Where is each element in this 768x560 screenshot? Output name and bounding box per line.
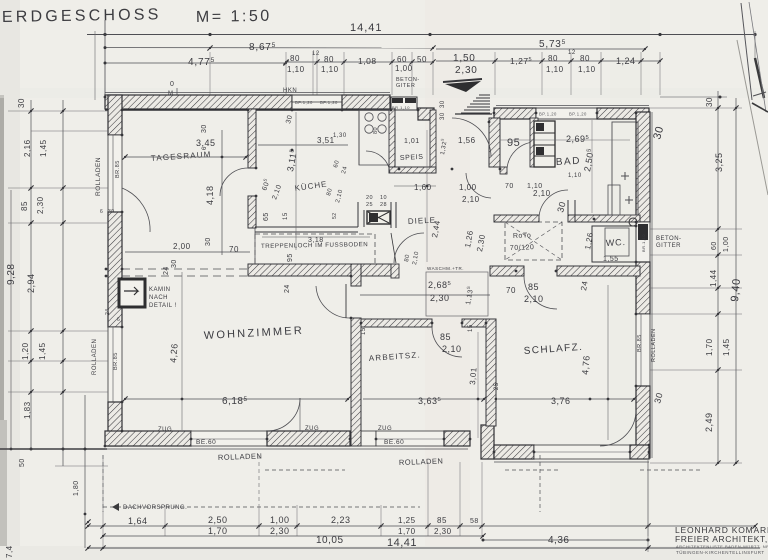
exterior left wall mid bbox=[108, 212, 122, 327]
bad tiled wardrobe right bbox=[612, 122, 638, 215]
door speis-diele arc bbox=[466, 173, 491, 198]
tagesraum dims bbox=[125, 156, 246, 158]
svg-text:70: 70 bbox=[505, 183, 514, 190]
exterior right wall lower bbox=[636, 386, 650, 458]
top dim 8,67.5 bbox=[105, 47, 433, 49]
dim 4,36 line bbox=[483, 539, 648, 541]
svg-text:1,60: 1,60 bbox=[414, 183, 432, 192]
svg-text:1,50: 1,50 bbox=[453, 53, 476, 64]
svg-text:BR.85: BR.85 bbox=[115, 160, 121, 178]
door diele-schlafz arc bbox=[524, 276, 557, 309]
svg-text:BE.60: BE.60 bbox=[384, 439, 404, 446]
entrance right wall bbox=[489, 118, 500, 167]
svg-text:BP.1,20: BP.1,20 bbox=[295, 100, 313, 105]
svg-text:7,4: 7,4 bbox=[5, 545, 14, 558]
top wall window BP1,20 kitchen bbox=[292, 95, 342, 109]
extension lines top bbox=[209, 52, 211, 95]
kueche dims bbox=[258, 144, 348, 146]
svg-text:30: 30 bbox=[171, 259, 178, 268]
svg-text:BP.1,20: BP.1,20 bbox=[320, 100, 338, 105]
speis/diele wall bbox=[389, 167, 436, 173]
svg-text:FREIER ARCHITEKT, ING.: FREIER ARCHITEKT, ING. bbox=[675, 534, 768, 544]
svg-text:25: 25 bbox=[366, 202, 373, 208]
exterior right wall upper bbox=[636, 112, 650, 222]
svg-text:1,10: 1,10 bbox=[321, 65, 339, 74]
svg-text:ERDGESCHOSS: ERDGESCHOSS bbox=[2, 6, 162, 26]
bad interior wall vertical bbox=[530, 118, 538, 167]
svg-text:2,10: 2,10 bbox=[533, 189, 551, 198]
svg-text:2,10: 2,10 bbox=[462, 195, 480, 204]
top dim 1,50 2,30 entrance bbox=[436, 60, 495, 62]
svg-text:2,30: 2,30 bbox=[455, 65, 478, 76]
bottom window 1 BE.60 bbox=[191, 431, 267, 446]
svg-text:ROLLADEN: ROLLADEN bbox=[95, 157, 102, 196]
svg-text:6: 6 bbox=[202, 146, 208, 150]
entrance steps symbol bbox=[479, 94, 490, 96]
door tagesraum arc bbox=[220, 168, 248, 196]
bad block bottom wall right bbox=[568, 215, 640, 222]
svg-text:10,05: 10,05 bbox=[316, 535, 344, 546]
svg-text:1,10: 1,10 bbox=[578, 65, 596, 74]
svg-text:1,55: 1,55 bbox=[603, 256, 619, 263]
exterior left wall bottom bbox=[108, 402, 122, 446]
svg-text:14,41: 14,41 bbox=[387, 537, 417, 549]
construction line diele bbox=[426, 130, 428, 262]
schlafz top wall bbox=[490, 266, 524, 276]
svg-text:2,30: 2,30 bbox=[430, 293, 450, 303]
svg-text:ZUG: ZUG bbox=[158, 427, 172, 433]
svg-text:2,94: 2,94 bbox=[26, 273, 36, 293]
left col vlines bbox=[30, 100, 32, 449]
svg-text:M= 1:50: M= 1:50 bbox=[196, 8, 272, 26]
svg-text:WASCHM.+TR.: WASCHM.+TR. bbox=[427, 266, 464, 271]
svg-text:ROLLADEN: ROLLADEN bbox=[399, 456, 444, 467]
door corridor arc bbox=[539, 190, 568, 218]
exterior top wall right section bbox=[494, 108, 536, 119]
svg-text:1,25: 1,25 bbox=[398, 516, 416, 525]
svg-text:95: 95 bbox=[287, 253, 294, 262]
svg-text:2,10: 2,10 bbox=[442, 344, 462, 354]
top dim line 14,41 bbox=[87, 34, 755, 36]
svg-text:85: 85 bbox=[437, 516, 447, 525]
svg-text:4,36: 4,36 bbox=[548, 535, 569, 546]
svg-text:1,30: 1,30 bbox=[333, 133, 347, 139]
right wall window small dark boxes bbox=[636, 222, 650, 262]
svg-text:1,20: 1,20 bbox=[21, 342, 30, 360]
stair opening dashed rect bbox=[255, 233, 375, 235]
circle mark near wc bbox=[629, 218, 637, 226]
kitchen counter top bbox=[359, 110, 389, 165]
arbeitsz top wall left bbox=[361, 319, 432, 327]
svg-text:6: 6 bbox=[117, 317, 120, 323]
left wall window ROLLADEN upper bbox=[108, 135, 122, 212]
svg-text:2,50: 2,50 bbox=[208, 515, 228, 525]
top small dims row bbox=[286, 61, 433, 63]
svg-text:ZUG: ZUG bbox=[305, 426, 319, 432]
top dims right small bbox=[495, 60, 660, 62]
outer face second lines bbox=[105, 448, 468, 450]
stair dims bbox=[262, 236, 370, 238]
speis left wall bbox=[389, 109, 395, 173]
svg-text:1,00: 1,00 bbox=[270, 515, 290, 525]
svg-text:80: 80 bbox=[373, 127, 379, 134]
svg-text:DACHVORSPRUNG.: DACHVORSPRUNG. bbox=[123, 505, 187, 511]
svg-text:30: 30 bbox=[201, 124, 208, 133]
svg-text:1,45: 1,45 bbox=[38, 342, 47, 360]
svg-text:ZUG: ZUG bbox=[378, 426, 392, 432]
svg-text:1,45: 1,45 bbox=[722, 338, 731, 356]
door diele-wohnzimmer arc bbox=[316, 286, 351, 318]
svg-text:BAD: BAD bbox=[556, 156, 582, 168]
svg-text:80: 80 bbox=[324, 55, 334, 64]
step wall vertical bbox=[481, 425, 494, 459]
svg-text:2,10: 2,10 bbox=[524, 294, 544, 304]
svg-text:1,00: 1,00 bbox=[459, 183, 477, 192]
svg-text:BR.1,10: BR.1,10 bbox=[641, 234, 646, 252]
svg-text:1,70: 1,70 bbox=[705, 338, 714, 356]
roto dashed skylight bbox=[505, 222, 562, 260]
svg-text:SPEIS: SPEIS bbox=[400, 154, 424, 162]
svg-text:1,64: 1,64 bbox=[128, 516, 148, 526]
svg-text:65: 65 bbox=[263, 212, 270, 221]
svg-text:BETON-: BETON- bbox=[656, 236, 682, 242]
right col vlines bbox=[717, 91, 719, 463]
wc walls bbox=[592, 226, 636, 262]
svg-text:1,44: 1,44 bbox=[709, 269, 718, 287]
exterior bottom wall left bbox=[105, 431, 191, 446]
svg-text:58: 58 bbox=[470, 518, 479, 525]
svg-text:3,76: 3,76 bbox=[551, 396, 571, 406]
svg-text:70: 70 bbox=[506, 286, 516, 295]
svg-text:2,49: 2,49 bbox=[704, 412, 714, 432]
wc left wall bbox=[567, 200, 569, 222]
svg-text:1,56: 1,56 bbox=[458, 136, 476, 145]
svg-text:28: 28 bbox=[380, 202, 387, 208]
svg-text:1,70: 1,70 bbox=[398, 527, 416, 536]
svg-text:2,23: 2,23 bbox=[331, 515, 351, 525]
main extension vline left bbox=[104, 20, 106, 97]
stove niche walls bbox=[357, 202, 359, 227]
bad washstand dark bbox=[534, 121, 555, 167]
svg-text:BE.60: BE.60 bbox=[196, 439, 216, 446]
svg-text:50: 50 bbox=[417, 55, 427, 64]
svg-text:1,10: 1,10 bbox=[568, 173, 582, 179]
north arrow bbox=[445, 81, 481, 92]
svg-text:15: 15 bbox=[283, 212, 289, 220]
junction dots bbox=[104, 96, 107, 99]
right wall window ROLLADEN bbox=[636, 314, 650, 386]
row 2,00 30 70 bbox=[125, 251, 250, 253]
kamin chimney bbox=[119, 279, 145, 307]
hotplates bbox=[365, 113, 373, 121]
top wall window boxes left of entrance bbox=[391, 97, 417, 110]
bottom dim row1 bbox=[88, 525, 755, 527]
svg-text:1,10: 1,10 bbox=[287, 65, 305, 74]
svg-text:85: 85 bbox=[20, 201, 29, 211]
wall wohnzimmer/arbeitsz vertical bbox=[351, 318, 361, 446]
svg-text:4,26: 4,26 bbox=[168, 343, 180, 363]
svg-text:1,10: 1,10 bbox=[546, 65, 564, 74]
svg-text:80: 80 bbox=[548, 54, 558, 63]
svg-text:4,18: 4,18 bbox=[205, 185, 215, 205]
svg-text:2,16: 2,16 bbox=[23, 139, 32, 157]
svg-text:2,30: 2,30 bbox=[36, 196, 45, 214]
svg-text:BR.85: BR.85 bbox=[113, 352, 119, 370]
svg-text:80: 80 bbox=[580, 54, 590, 63]
svg-text:TÜBINGEN-KIRCHENTELLINSFURT: TÜBINGEN-KIRCHENTELLINSFURT bbox=[676, 549, 765, 555]
svg-text:1,24: 1,24 bbox=[616, 56, 636, 66]
svg-text:60: 60 bbox=[397, 55, 407, 64]
svg-text:15: 15 bbox=[361, 327, 367, 335]
svg-text:1,80: 1,80 bbox=[73, 480, 80, 496]
speis right wall bbox=[430, 110, 436, 172]
faint scanner bands bbox=[425, 0, 470, 560]
svg-text:1,08: 1,08 bbox=[358, 56, 377, 66]
svg-text:20: 20 bbox=[366, 195, 373, 201]
svg-text:15: 15 bbox=[468, 324, 474, 332]
svg-text:ARCHITEKTENLISTE BADEN-WÜRTT.: ARCHITEKTENLISTE BADEN-WÜRTT. NR. 8L bbox=[676, 544, 768, 549]
door arbeitsz arc bbox=[432, 327, 462, 357]
svg-text:30: 30 bbox=[440, 100, 446, 108]
svg-text:24: 24 bbox=[163, 266, 170, 275]
svg-text:30: 30 bbox=[17, 98, 26, 108]
svg-text:80: 80 bbox=[290, 54, 300, 63]
bottom window 2 bbox=[360, 431, 376, 446]
svg-text:HKN: HKN bbox=[283, 88, 297, 94]
svg-text:KAMIN: KAMIN bbox=[149, 287, 171, 293]
wall stub below kueche door bbox=[391, 264, 399, 278]
svg-text:BR.85: BR.85 bbox=[637, 334, 643, 352]
svg-text:GITTER: GITTER bbox=[656, 243, 681, 249]
svg-text:60: 60 bbox=[711, 241, 718, 250]
bottom dim row2 bbox=[103, 535, 483, 537]
svg-text:WC.: WC. bbox=[606, 237, 626, 248]
svg-text:50: 50 bbox=[19, 458, 26, 467]
fold mark top right bbox=[741, 3, 752, 100]
top wall stub at entrance bbox=[418, 108, 434, 120]
svg-text:2,00: 2,00 bbox=[173, 242, 191, 251]
bottom wall under arbeitsz window BE.60 bbox=[376, 431, 444, 446]
kitchen herd dark box bbox=[367, 211, 390, 224]
left rows to wall bbox=[31, 130, 108, 132]
wall wohnzimmer/diele vertical upper bbox=[351, 264, 361, 286]
svg-text:70: 70 bbox=[229, 245, 239, 254]
svg-text:3,18: 3,18 bbox=[308, 237, 324, 244]
top dim 5,73.5 bbox=[436, 48, 645, 50]
svg-text:2,30: 2,30 bbox=[434, 527, 452, 536]
terrace door arc wohnzimmer bbox=[267, 398, 300, 431]
svg-text:85: 85 bbox=[440, 332, 451, 342]
svg-text:24: 24 bbox=[105, 308, 111, 315]
top dim 4,77.5 bbox=[105, 62, 286, 64]
svg-text:RoTo: RoTo bbox=[513, 232, 532, 240]
svg-text:1,00: 1,00 bbox=[723, 236, 730, 252]
svg-text:NACH: NACH bbox=[149, 295, 168, 301]
svg-text:24: 24 bbox=[579, 280, 590, 291]
svg-text:1,01: 1,01 bbox=[404, 138, 420, 145]
schlafzimmer bottom wall bbox=[494, 445, 534, 459]
svg-text:3,51: 3,51 bbox=[317, 136, 335, 145]
svg-text:95: 95 bbox=[507, 137, 520, 149]
bottom wall right stub bbox=[444, 431, 470, 446]
kueche door to diele arc bbox=[394, 233, 424, 263]
wall arbeitsz/schlafz vertical bbox=[486, 319, 496, 426]
svg-text:30: 30 bbox=[440, 112, 446, 120]
svg-text:9,40: 9,40 bbox=[729, 278, 743, 302]
svg-text:10: 10 bbox=[380, 195, 387, 201]
svg-text:30: 30 bbox=[205, 237, 212, 246]
exterior right wall mid bbox=[636, 262, 650, 314]
dark line left margin bbox=[0, 448, 107, 450]
wall tagesraum/kueche lower bbox=[248, 196, 256, 228]
exterior left wall upper bbox=[108, 95, 122, 135]
svg-text:24: 24 bbox=[284, 284, 291, 293]
tagesraum window door arc bbox=[122, 188, 150, 232]
long faint fold diagonal top right bbox=[737, 40, 768, 195]
svg-text:0: 0 bbox=[170, 81, 174, 88]
bottom extension verticals bbox=[258, 455, 260, 505]
construction line arbeitsz bbox=[477, 332, 479, 438]
left col hticks bbox=[8, 110, 108, 112]
svg-text:6: 6 bbox=[100, 209, 103, 215]
svg-text:2,30: 2,30 bbox=[270, 526, 290, 536]
kueche counter left edge bbox=[358, 110, 360, 165]
svg-text:1,83: 1,83 bbox=[23, 401, 32, 419]
svg-text:ROLLADEN: ROLLADEN bbox=[92, 339, 98, 375]
exterior top wall left bbox=[105, 95, 292, 109]
exterior top wall mid bbox=[342, 95, 390, 109]
svg-text:1,45: 1,45 bbox=[39, 139, 48, 157]
svg-text:12: 12 bbox=[568, 50, 576, 56]
svg-text:30: 30 bbox=[705, 97, 714, 107]
svg-text:4,76: 4,76 bbox=[580, 355, 592, 375]
bottom left vline85 ticks bbox=[84, 448, 87, 451]
bottom dim row3 14,41 bbox=[88, 547, 760, 549]
bad block bottom wall left bbox=[494, 215, 539, 222]
svg-text:1,00: 1,00 bbox=[395, 64, 413, 73]
wc fixtures bbox=[605, 228, 629, 256]
svg-text:52: 52 bbox=[332, 212, 338, 219]
svg-text:DETAIL !: DETAIL ! bbox=[149, 303, 177, 309]
svg-text:3,01: 3,01 bbox=[468, 367, 479, 385]
wall tagesraum/kueche upper bbox=[248, 109, 256, 168]
svg-text:BP.1,20: BP.1,20 bbox=[539, 112, 557, 117]
left wall window ROLLADEN lower bbox=[108, 327, 122, 402]
svg-text:85: 85 bbox=[528, 282, 539, 292]
svg-text:70/120: 70/120 bbox=[510, 244, 535, 252]
svg-text:9,28: 9,28 bbox=[6, 264, 17, 285]
right col hticks bbox=[650, 107, 742, 109]
svg-text:BP.1,20: BP.1,20 bbox=[569, 112, 587, 117]
arbeitsz top wall right bbox=[462, 319, 486, 327]
kueche lower thin wall bbox=[255, 226, 358, 228]
stair hall bottom wall bbox=[248, 264, 391, 276]
svg-text:3,25: 3,25 bbox=[714, 152, 724, 172]
divider dashes tagesraum/wohnzimmer bbox=[122, 268, 249, 270]
bad door wall piece + arc bbox=[500, 167, 507, 174]
svg-text:25: 25 bbox=[494, 382, 500, 390]
svg-text:GITER: GITER bbox=[396, 83, 415, 89]
svg-text:14,41: 14,41 bbox=[350, 22, 383, 34]
svg-text:ROLLADEN: ROLLADEN bbox=[218, 451, 263, 462]
construction line bad bbox=[500, 139, 630, 141]
svg-text:1,70: 1,70 bbox=[208, 526, 228, 536]
dachvorsprung dashed bbox=[102, 455, 104, 512]
schlafz door arc right bbox=[600, 410, 636, 446]
entrance door arc bbox=[452, 118, 491, 157]
bottom wall mid stub bbox=[267, 431, 350, 446]
